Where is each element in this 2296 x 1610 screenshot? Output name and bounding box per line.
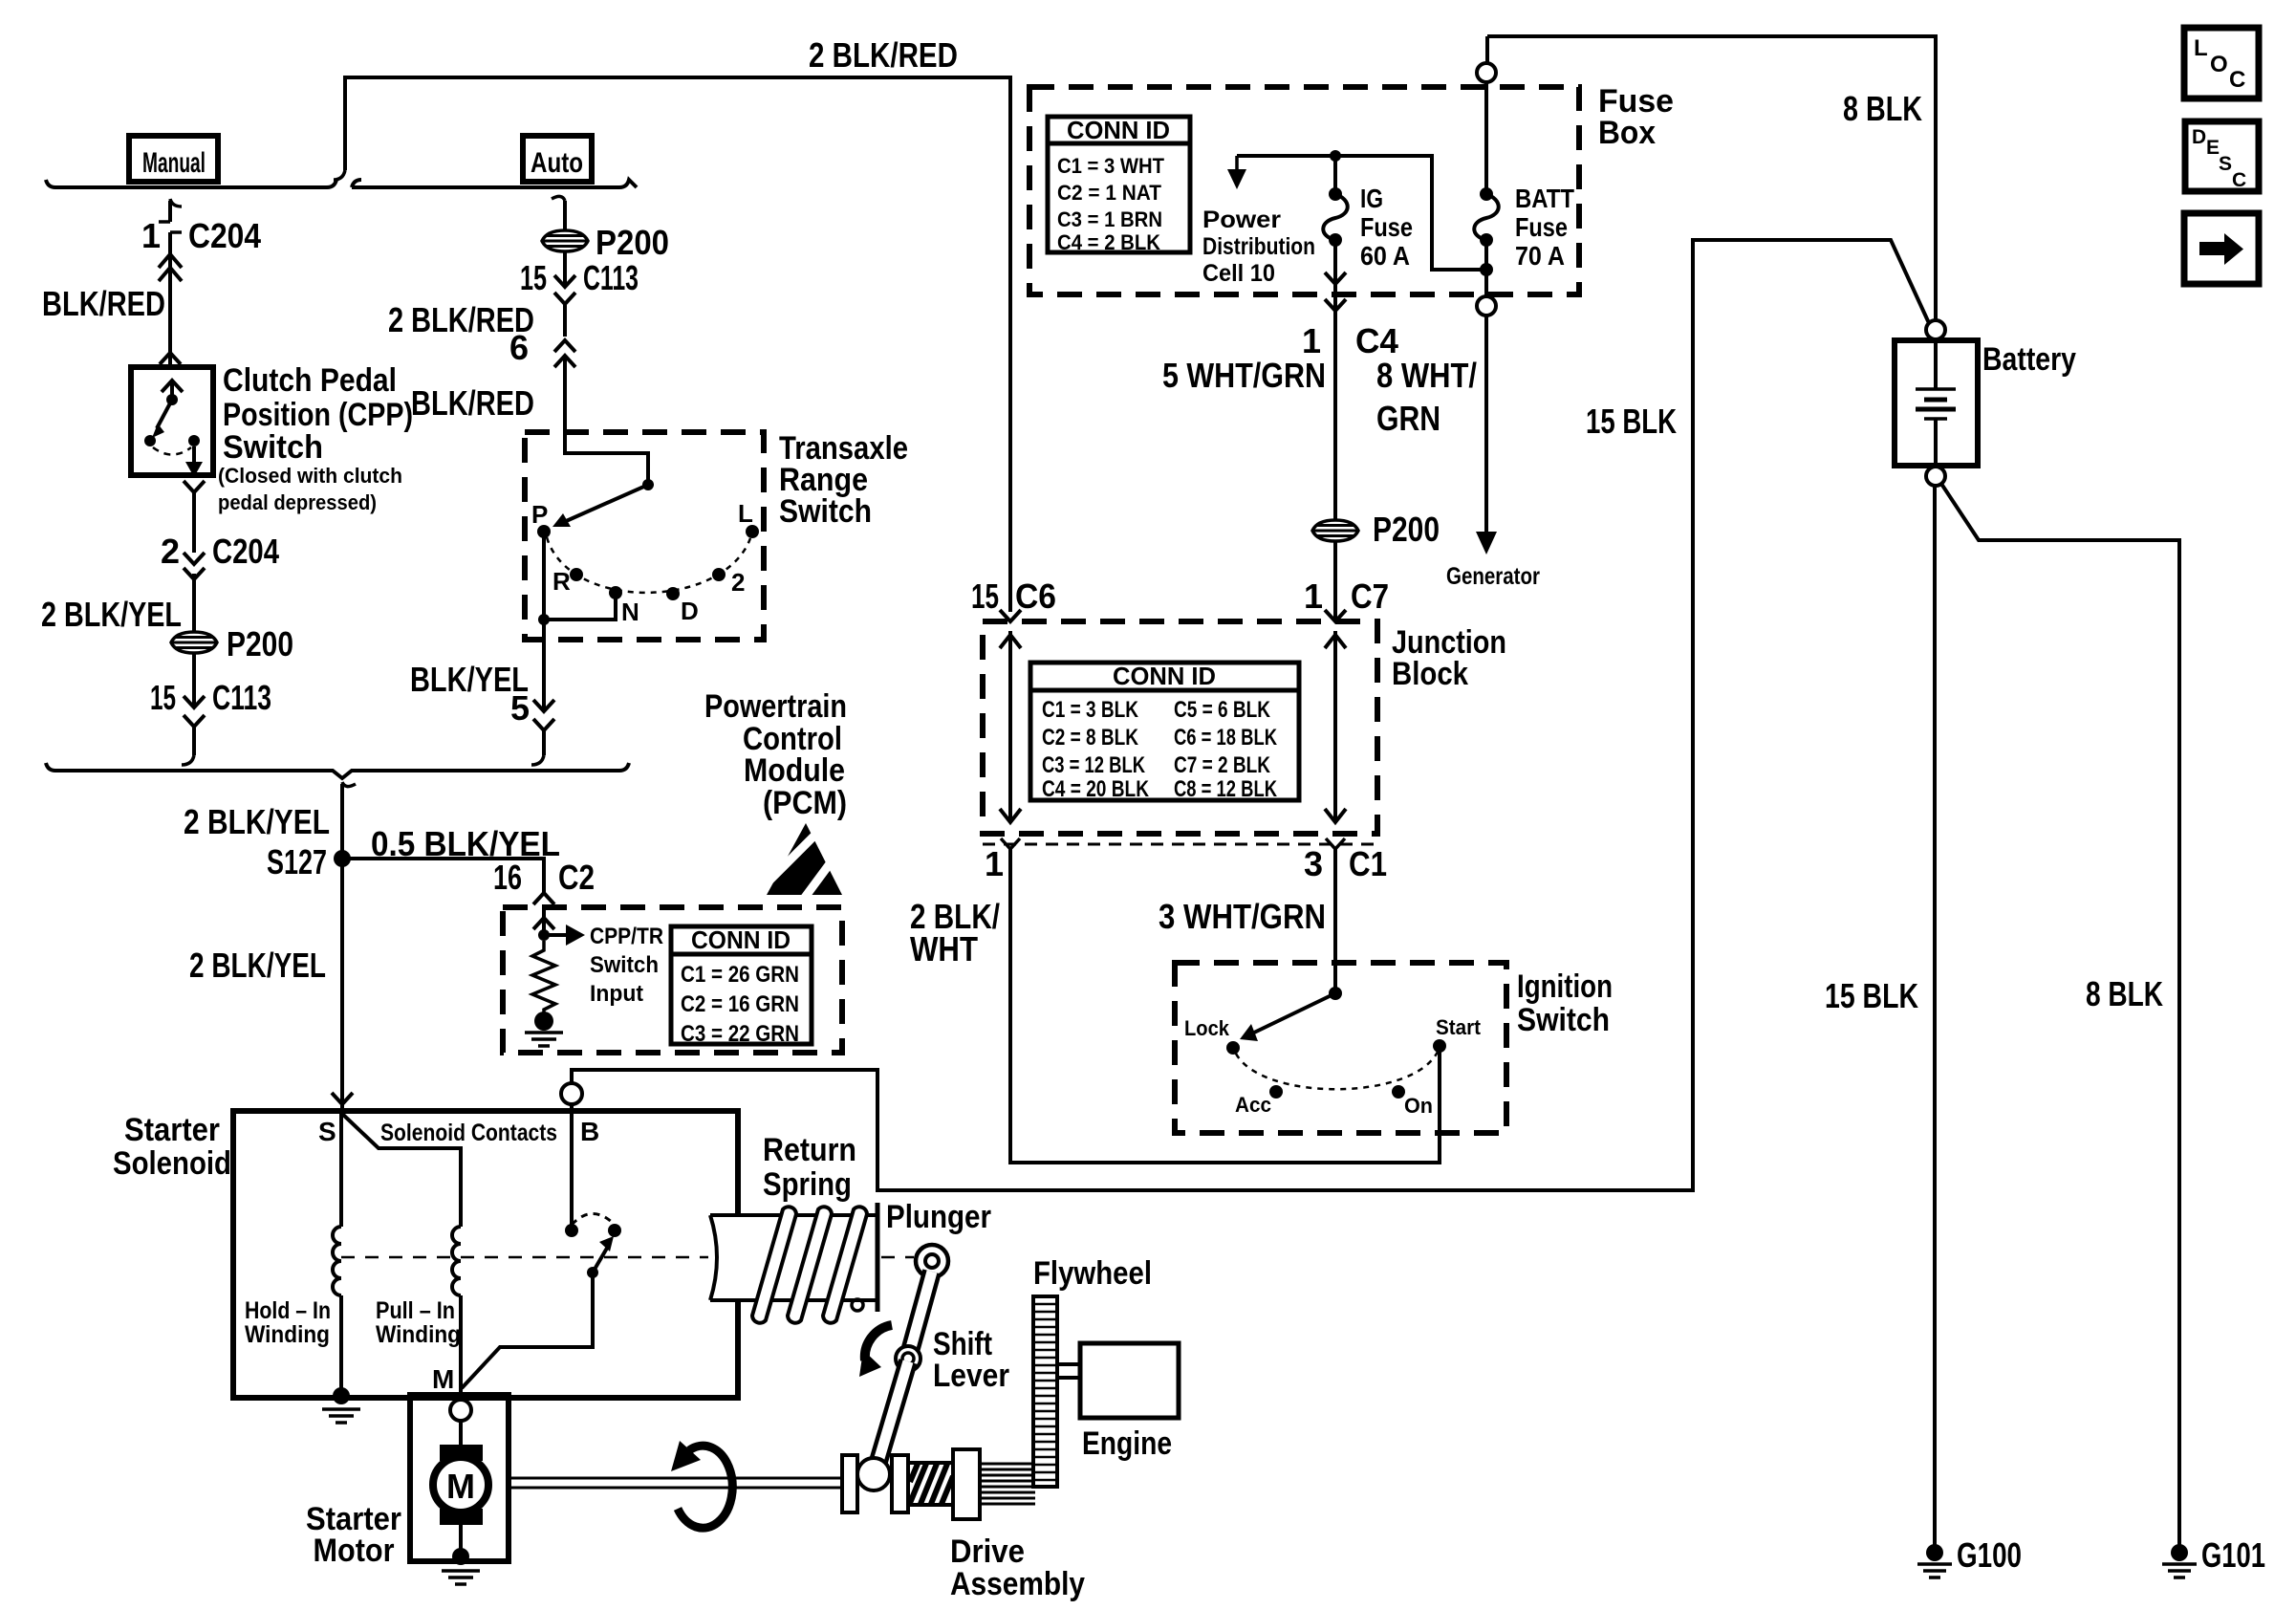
magnetic axis dashed centerline xyxy=(341,1256,708,1259)
fuse box dashed box xyxy=(1029,87,1579,294)
svg-text:6: 6 xyxy=(509,328,529,367)
CPP internal entry arrow xyxy=(162,381,183,392)
svg-text:Position (CPP): Position (CPP) xyxy=(223,397,413,433)
B contact wire xyxy=(570,1104,574,1225)
wire 15 BLK to G100 xyxy=(1933,486,1937,1549)
svg-text:P: P xyxy=(531,500,548,529)
wire Manual drop from bus xyxy=(170,199,182,207)
junction block dashed box xyxy=(983,621,1377,834)
svg-text:Flywheel: Flywheel xyxy=(1033,1255,1152,1292)
svg-text:1: 1 xyxy=(985,844,1004,883)
svg-text:pedal depressed): pedal depressed) xyxy=(218,490,377,514)
TR contact D xyxy=(666,587,680,600)
battery cell symbol xyxy=(1934,340,1938,389)
svg-text:Powertrain: Powertrain xyxy=(704,688,847,725)
TR selector arm xyxy=(564,485,648,522)
flywheel to engine shaft xyxy=(1057,1364,1080,1378)
svg-text:2: 2 xyxy=(731,568,745,597)
svg-text:Switch: Switch xyxy=(1517,1002,1610,1038)
battery box xyxy=(1895,340,1978,466)
svg-text:Winding: Winding xyxy=(376,1321,461,1348)
svg-text:L: L xyxy=(738,499,753,528)
svg-text:C113: C113 xyxy=(583,258,639,297)
svg-text:Plunger: Plunger xyxy=(886,1199,991,1235)
battery negative terminal ring xyxy=(1926,467,1945,486)
ground G101 xyxy=(2171,1544,2188,1561)
CPP/TR switch input arrow xyxy=(544,933,568,937)
starter solenoid box xyxy=(233,1111,738,1398)
svg-text:Auto: Auto xyxy=(531,147,583,179)
motor output shaft xyxy=(509,1478,842,1488)
splice S127 xyxy=(334,850,351,867)
svg-text:S127: S127 xyxy=(267,842,327,881)
svg-text:Solenoid Contacts: Solenoid Contacts xyxy=(380,1120,557,1146)
svg-text:C1 = 3 BLK: C1 = 3 BLK xyxy=(1042,697,1139,723)
svg-text:CONN ID: CONN ID xyxy=(1113,662,1216,690)
svg-text:CONN ID: CONN ID xyxy=(1067,116,1170,144)
moving contact linkage to M xyxy=(462,1273,593,1388)
CPP dashed throw arc xyxy=(153,447,191,455)
bus2 center drop hook xyxy=(342,782,356,787)
svg-text:Switch: Switch xyxy=(223,429,323,466)
svg-text:Switch: Switch xyxy=(779,493,872,530)
svg-text:C3 = 1 BRN: C3 = 1 BRN xyxy=(1057,207,1162,231)
ground symbol (PCM) xyxy=(525,1031,563,1034)
next-page arrow icon box xyxy=(2184,213,2259,284)
contact dashed arc xyxy=(572,1214,615,1226)
BATT fuse 70 A xyxy=(1480,187,1493,201)
svg-text:C2 = 8 BLK: C2 = 8 BLK xyxy=(1042,725,1139,751)
wire power distribution branch xyxy=(1237,156,1483,270)
svg-text:Switch: Switch xyxy=(590,952,659,978)
wire below CPP to C204 pin 2 xyxy=(192,490,196,553)
wire 8 BLK battery top feed xyxy=(1487,36,1936,319)
svg-text:8 WHT/: 8 WHT/ xyxy=(1376,356,1477,395)
svg-text:Cell 10: Cell 10 xyxy=(1202,260,1275,287)
svg-text:Starter: Starter xyxy=(124,1112,220,1148)
drive assembly flange 3 xyxy=(953,1449,980,1519)
svg-text:L: L xyxy=(2194,35,2208,61)
svg-text:BLK/RED: BLK/RED xyxy=(411,383,534,423)
TR contact R xyxy=(570,568,583,581)
svg-text:2 BLK/YEL: 2 BLK/YEL xyxy=(184,802,330,841)
svg-text:2 BLK/YEL: 2 BLK/YEL xyxy=(41,595,182,634)
ignition contact Start xyxy=(1433,1039,1446,1053)
svg-text:1: 1 xyxy=(1304,577,1323,616)
svg-text:E: E xyxy=(2206,137,2220,159)
plunger body xyxy=(710,1215,877,1300)
grommet P200 (left) xyxy=(171,632,217,653)
svg-text:D: D xyxy=(2192,126,2206,148)
drive assembly flange 1 xyxy=(842,1455,857,1512)
shift lever upper arm xyxy=(909,1272,932,1355)
wire 3 WHT/GRN to ignition switch xyxy=(1333,849,1337,993)
svg-text:C204: C204 xyxy=(212,532,279,571)
svg-text:CPP/TR: CPP/TR xyxy=(590,924,663,949)
PCM CONN ID table xyxy=(671,926,812,1044)
bus 2 (lower options brace) xyxy=(46,763,629,778)
svg-text:8 BLK: 8 BLK xyxy=(1843,89,1922,128)
ignition pivot dot xyxy=(1329,987,1342,1000)
svg-text:Winding: Winding xyxy=(245,1321,330,1348)
wire 2 BLK/WHT down to start contact xyxy=(1010,849,1440,1163)
resistor (pull-up) xyxy=(532,941,555,1013)
svg-text:B: B xyxy=(580,1117,599,1146)
svg-text:Input: Input xyxy=(590,981,643,1007)
wire ignition feed xyxy=(1333,337,1337,520)
svg-text:Motor: Motor xyxy=(314,1533,395,1569)
terminal ring (fuse box top) xyxy=(1477,63,1496,82)
shift lever lower arm xyxy=(875,1361,908,1474)
shift lever pivot eye xyxy=(916,1245,948,1277)
ground symbol (motor) xyxy=(442,1569,480,1573)
svg-text:Pull – In: Pull – In xyxy=(376,1297,455,1324)
svg-text:O: O xyxy=(2210,52,2228,77)
svg-text:C3 = 22 GRN: C3 = 22 GRN xyxy=(681,1021,799,1047)
TR contact P xyxy=(537,525,551,538)
chevrons up on BLK/RED wire xyxy=(159,254,182,268)
svg-text:C7: C7 xyxy=(1351,577,1389,616)
TR dashed range arc xyxy=(547,537,750,593)
svg-text:(PCM): (PCM) xyxy=(763,785,847,821)
svg-text:C7 = 2 BLK: C7 = 2 BLK xyxy=(1174,752,1271,778)
svg-text:G100: G100 xyxy=(1957,1535,2022,1575)
svg-text:S: S xyxy=(318,1117,336,1146)
PCM dashed box xyxy=(503,907,842,1053)
svg-text:15 BLK: 15 BLK xyxy=(1586,402,1677,441)
TR output wire pin 5 xyxy=(542,620,546,709)
svg-text:G101: G101 xyxy=(2201,1535,2265,1575)
chevron at starter solenoid entry xyxy=(332,1093,353,1104)
junction block pass-through C6 xyxy=(1008,631,1012,822)
shift lever ball end xyxy=(857,1458,890,1490)
svg-text:2 BLK/YEL: 2 BLK/YEL xyxy=(189,946,326,985)
svg-text:WHT: WHT xyxy=(910,929,978,968)
pull-in winding coil xyxy=(452,1227,461,1295)
svg-text:P200: P200 xyxy=(227,624,293,664)
svg-text:Hold – In: Hold – In xyxy=(245,1297,331,1324)
svg-text:C: C xyxy=(2229,67,2245,93)
svg-text:1: 1 xyxy=(1302,321,1321,360)
pull-in winding feed xyxy=(341,1113,461,1227)
svg-text:Start: Start xyxy=(1436,1015,1482,1039)
hold-in winding coil xyxy=(333,1227,341,1295)
wire hook at top feed into bus xyxy=(334,170,345,180)
splined shaft xyxy=(980,1464,1035,1504)
TR pivot dot xyxy=(642,479,654,490)
B contact dot xyxy=(565,1224,578,1237)
TR feed wire xyxy=(565,432,648,483)
svg-text:IG: IG xyxy=(1360,184,1383,213)
hold-in winding feed xyxy=(339,1111,343,1227)
motor ground dot xyxy=(452,1548,469,1565)
svg-text:70 A: 70 A xyxy=(1515,241,1565,271)
drive assembly flange 2 xyxy=(892,1455,908,1512)
wire 0.5 BLK/YEL to PCM xyxy=(342,859,544,893)
svg-text:BLK/RED: BLK/RED xyxy=(42,284,165,323)
svg-text:Power: Power xyxy=(1202,207,1281,233)
svg-text:CONN ID: CONN ID xyxy=(691,925,791,954)
Manual box xyxy=(129,136,218,182)
IG fuse output arrow xyxy=(1333,240,1337,282)
ground G100 xyxy=(1926,1544,1943,1561)
svg-text:C113: C113 xyxy=(212,678,271,717)
svg-text:R: R xyxy=(552,567,571,596)
svg-text:Box: Box xyxy=(1598,115,1656,151)
svg-text:C6 = 18 BLK: C6 = 18 BLK xyxy=(1174,725,1278,751)
svg-text:Solenoid: Solenoid xyxy=(113,1145,231,1182)
grommet P200 (Auto) xyxy=(542,230,588,251)
svg-text:15: 15 xyxy=(971,577,999,616)
hold-in winding ground leg xyxy=(339,1295,343,1394)
svg-text:Module: Module xyxy=(744,752,845,789)
motor brush block top xyxy=(440,1445,483,1461)
svg-text:C1 = 3 WHT: C1 = 3 WHT xyxy=(1057,154,1165,178)
svg-text:3 WHT/GRN: 3 WHT/GRN xyxy=(1159,897,1326,936)
svg-text:M: M xyxy=(432,1364,454,1394)
battery positive terminal ring xyxy=(1926,320,1945,339)
svg-text:Drive: Drive xyxy=(950,1534,1025,1570)
svg-text:60 A: 60 A xyxy=(1360,241,1410,271)
clutch pedal position switch box xyxy=(131,367,213,475)
PCM input arrow up xyxy=(533,918,554,929)
IG fuse 60 A xyxy=(1329,187,1342,201)
starter motor box xyxy=(410,1395,509,1561)
ignition contact On xyxy=(1392,1085,1405,1099)
wire 8 WHT/GRN to generator xyxy=(1484,315,1488,535)
svg-text:C4: C4 xyxy=(1355,321,1398,360)
B terminal ring xyxy=(561,1083,582,1104)
shift lever rotate arrow xyxy=(865,1325,892,1360)
motor armature M xyxy=(433,1457,488,1512)
ignition dashed throw arc xyxy=(1236,1052,1438,1089)
ignition switch dashed box xyxy=(1175,963,1506,1133)
svg-text:Generator: Generator xyxy=(1446,563,1540,590)
svg-text:3: 3 xyxy=(1304,844,1323,883)
TR contact N xyxy=(609,586,622,599)
DESC icon box xyxy=(2185,121,2259,191)
fuse box CONN ID table xyxy=(1048,117,1190,252)
ESD sensitivity symbol xyxy=(767,823,842,895)
svg-text:C8 = 12 BLK: C8 = 12 BLK xyxy=(1174,776,1278,802)
Auto box xyxy=(523,136,592,182)
pull-in winding to M leg xyxy=(459,1295,463,1394)
svg-text:C2 = 1 NAT: C2 = 1 NAT xyxy=(1057,181,1162,205)
TR contact L xyxy=(746,525,759,538)
svg-text:C1: C1 xyxy=(1349,844,1387,883)
wire 2 BLK/RED top run xyxy=(345,77,1010,612)
svg-text:15: 15 xyxy=(150,678,176,717)
connector C204 pin 1 inline symbol xyxy=(159,220,170,224)
CPP exit arrow xyxy=(192,446,196,472)
second contact dot xyxy=(608,1224,621,1237)
svg-text:(Closed with clutch: (Closed with clutch xyxy=(218,464,402,488)
wire C113 pin 15 (left) xyxy=(192,653,196,706)
svg-text:C4 = 20 BLK: C4 = 20 BLK xyxy=(1042,776,1150,802)
svg-text:5: 5 xyxy=(510,688,530,728)
junction dot below BATT fuse xyxy=(1480,263,1493,276)
engine box xyxy=(1080,1343,1179,1418)
svg-text:16: 16 xyxy=(493,858,522,897)
junction block pass-through C7 xyxy=(1333,631,1337,822)
svg-text:C2: C2 xyxy=(558,858,595,897)
svg-text:C5 = 6 BLK: C5 = 6 BLK xyxy=(1174,697,1271,723)
chevron below CPP box xyxy=(184,481,205,492)
CPP contact dots xyxy=(144,435,156,446)
M terminal ring xyxy=(450,1400,471,1421)
svg-text:Fuse: Fuse xyxy=(1515,212,1568,242)
shaft rotation arrow xyxy=(678,1446,732,1528)
wire battery feed at fuse box top xyxy=(1485,36,1489,63)
shift lever mid joint xyxy=(896,1346,921,1371)
connector C1 interface dashed line xyxy=(983,843,1377,846)
terminal ring (fuse box bottom) xyxy=(1477,296,1496,315)
svg-text:Fuse: Fuse xyxy=(1360,212,1413,242)
wire Auto drop from bus xyxy=(552,196,565,201)
svg-text:C3 = 12 BLK: C3 = 12 BLK xyxy=(1042,752,1146,778)
return spring coils xyxy=(752,1207,796,1322)
ground dot inside PCM xyxy=(534,1012,553,1031)
svg-text:Distribution: Distribution xyxy=(1202,233,1315,260)
svg-text:1: 1 xyxy=(141,216,161,255)
solenoid ground dot xyxy=(333,1387,350,1404)
svg-text:15 BLK: 15 BLK xyxy=(1825,976,1918,1015)
arrow to power distribution cell 10 xyxy=(1235,156,1239,172)
svg-text:Manual: Manual xyxy=(142,147,206,179)
svg-text:N: N xyxy=(621,598,639,626)
transaxle range switch dashed box xyxy=(525,432,764,640)
svg-text:Acc: Acc xyxy=(1235,1093,1271,1117)
svg-text:Block: Block xyxy=(1392,656,1468,692)
svg-text:5 WHT/GRN: 5 WHT/GRN xyxy=(1162,356,1326,395)
svg-text:15: 15 xyxy=(520,258,547,297)
svg-text:On: On xyxy=(1404,1094,1433,1118)
TR P to N link wire xyxy=(544,532,616,620)
wire C113 pin 15 (Auto) xyxy=(563,251,567,285)
motor brush block bottom xyxy=(440,1509,483,1525)
svg-text:M: M xyxy=(446,1467,475,1506)
drive clutch housing (hatched) xyxy=(908,1463,953,1505)
wire B terminal to battery positive xyxy=(572,240,1929,1190)
svg-text:8 BLK: 8 BLK xyxy=(2086,974,2163,1013)
svg-text:Engine: Engine xyxy=(1082,1425,1172,1462)
svg-text:Ignition: Ignition xyxy=(1517,968,1613,1005)
CPP switch arm xyxy=(157,400,172,428)
moving contact arm xyxy=(587,1267,598,1278)
wire 8 BLK to G101 xyxy=(1941,484,2179,1549)
bus (Manual/Auto options brace) left segment xyxy=(55,180,336,187)
flywheel ring gear xyxy=(1033,1296,1057,1487)
svg-text:D: D xyxy=(681,597,699,625)
svg-text:2 BLK/RED: 2 BLK/RED xyxy=(809,35,958,75)
svg-text:P200: P200 xyxy=(596,223,669,262)
svg-text:Spring: Spring xyxy=(763,1166,852,1203)
svg-text:C204: C204 xyxy=(188,216,261,255)
ground symbol (solenoid) xyxy=(322,1407,360,1411)
LOC icon box xyxy=(2184,28,2259,98)
svg-text:C4 = 2 BLK: C4 = 2 BLK xyxy=(1057,230,1160,254)
grommet P200 (ignition feed) xyxy=(1312,520,1358,541)
svg-text:Return: Return xyxy=(763,1132,856,1168)
svg-text:C: C xyxy=(2232,169,2246,191)
svg-text:0.5 BLK/YEL: 0.5 BLK/YEL xyxy=(371,824,560,863)
svg-text:C1 = 26 GRN: C1 = 26 GRN xyxy=(681,962,799,988)
chevron above CPP box xyxy=(160,353,181,364)
junction dot on branch xyxy=(1330,150,1341,162)
bus right segment xyxy=(352,180,637,187)
svg-text:Clutch Pedal: Clutch Pedal xyxy=(223,362,397,399)
CPP pivot dot xyxy=(166,394,178,405)
ignition switch arm xyxy=(1254,993,1335,1033)
svg-text:2: 2 xyxy=(161,532,180,571)
ignition contact Lock xyxy=(1226,1041,1240,1055)
junction block CONN ID table xyxy=(1030,663,1299,800)
svg-text:P200: P200 xyxy=(1373,510,1440,549)
svg-text:Lock: Lock xyxy=(1184,1016,1230,1040)
ignition contact Acc xyxy=(1269,1085,1283,1099)
TR contact 2 xyxy=(712,568,726,581)
svg-text:Assembly: Assembly xyxy=(950,1566,1085,1602)
svg-text:C6: C6 xyxy=(1015,577,1056,616)
svg-text:C2 = 16 GRN: C2 = 16 GRN xyxy=(681,991,799,1017)
svg-text:GRN: GRN xyxy=(1376,399,1440,438)
svg-text:Lever: Lever xyxy=(933,1358,1009,1394)
svg-text:Battery: Battery xyxy=(1982,341,2076,378)
PCM input node dot xyxy=(538,929,550,941)
svg-text:S: S xyxy=(2219,153,2232,175)
TR junction dot xyxy=(538,614,550,625)
svg-text:BATT: BATT xyxy=(1515,184,1574,213)
